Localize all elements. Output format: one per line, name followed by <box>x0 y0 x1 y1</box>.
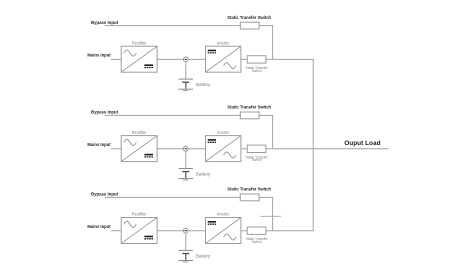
ground symbol line 2 (module 2) <box>183 179 189 181</box>
svg-text:Rectifier: Rectifier <box>132 130 147 135</box>
rectifier REC3 AC sine symbol <box>124 221 136 227</box>
battery B1 short plate <box>182 81 189 83</box>
wire bypass drop (module 1) <box>272 26 274 60</box>
rectifier REC2 DC symbol solid line <box>144 154 153 156</box>
wire S1a output to corner (module 1) <box>259 25 273 27</box>
svg-text:Static Transfer Switch: Static Transfer Switch <box>227 105 271 110</box>
wire battery drop (module 1) <box>185 62 187 79</box>
static transfer switch S2a (bypass path) <box>240 112 259 119</box>
wire battery to ground (module 3) <box>185 254 187 261</box>
static transfer switch S3b (inverter path) <box>247 227 266 234</box>
svg-text:Battery: Battery <box>196 82 211 87</box>
wire mains input (module 1) <box>111 58 121 60</box>
node DC bus junction mark (module 3) <box>185 230 187 232</box>
wire S3b output to bus (module 3) <box>266 230 314 232</box>
inverter INV1 box <box>206 46 241 72</box>
svg-text:Bypass Input: Bypass Input <box>91 192 118 197</box>
wire S2a output to corner (module 2) <box>259 114 273 116</box>
svg-text:Rectifier: Rectifier <box>132 40 147 45</box>
svg-text:Ouput Load: Ouput Load <box>344 140 380 147</box>
rectifier REC2 diagonal <box>122 136 157 161</box>
rectifier REC3 diagonal <box>122 218 157 243</box>
wire battery drop (module 3) <box>185 233 187 250</box>
rectifier REC3 DC symbol dashed line <box>144 238 153 240</box>
wire rectifier to DC node (module 2) <box>157 148 183 150</box>
node DC bus junction mark (module 1) <box>185 58 187 60</box>
rectifier REC1 DC symbol dashed line <box>144 67 153 69</box>
svg-text:Static Transfer Switch: Static Transfer Switch <box>227 187 271 192</box>
svg-text:Bypass Input: Bypass Input <box>91 20 118 25</box>
svg-text:Mains Input: Mains Input <box>87 224 111 229</box>
ground symbol line 2 (module 1) <box>183 90 189 92</box>
ground symbol line 2 (module 3) <box>183 261 189 263</box>
wire bypass drop (module 2) <box>272 115 274 148</box>
node DC bus junction (module 1) <box>183 57 188 62</box>
rectifier REC2 box <box>121 136 157 162</box>
svg-text:Switch: Switch <box>252 157 262 162</box>
ground symbol line 1 (module 3) <box>178 260 193 262</box>
inverter INV1 AC sine symbol <box>224 63 237 69</box>
wire S2b output to bus (module 2) <box>266 148 314 150</box>
inverter INV1 DC symbol solid line <box>208 50 216 52</box>
wire DC node to inverter (module 3) <box>188 230 205 232</box>
inverter INV1 diagonal <box>206 47 241 72</box>
wire DC node to inverter (module 2) <box>188 148 205 150</box>
svg-text:Switch: Switch <box>252 68 262 73</box>
battery B3 long plate <box>179 249 193 251</box>
static transfer switch S1b (inverter path) <box>247 56 266 63</box>
ground symbol line 1 (module 1) <box>178 88 193 90</box>
wire S1b output to bus (module 1) <box>266 58 314 60</box>
wire output load line <box>313 148 388 150</box>
svg-text:Mains Input: Mains Input <box>87 53 111 58</box>
svg-text:Bypass Input: Bypass Input <box>91 110 118 115</box>
wire mains input (module 2) <box>111 148 121 150</box>
wire battery to ground (module 1) <box>185 82 187 89</box>
svg-text:Battery: Battery <box>196 171 211 176</box>
wire battery to ground (module 2) <box>185 172 187 179</box>
inverter INV2 DC symbol solid line <box>208 139 216 141</box>
rectifier REC1 box <box>121 46 157 72</box>
svg-text:Static Transfer Switch: Static Transfer Switch <box>227 15 271 20</box>
rectifier REC1 AC sine symbol <box>124 50 136 56</box>
svg-text:Inverter: Inverter <box>217 40 230 45</box>
wire mains input (module 3) <box>111 230 121 232</box>
wire S3a output to corner (module 3) <box>259 196 273 198</box>
node DC bus junction mark (module 2) <box>185 148 187 150</box>
inverter INV3 diagonal <box>206 218 241 243</box>
static transfer switch S3a (bypass path) <box>240 194 259 201</box>
inverter INV3 DC symbol solid line <box>208 221 216 223</box>
inverter INV3 AC sine symbol <box>224 234 237 240</box>
svg-text:Mains Input: Mains Input <box>87 142 111 147</box>
wire battery drop (module 2) <box>185 151 187 168</box>
wire bypass drop (module 3) <box>272 197 274 230</box>
wire inverter to S1b (module 1) <box>241 58 247 60</box>
rectifier REC1 DC symbol solid line <box>144 64 153 66</box>
wire DC node to inverter (module 1) <box>188 58 205 60</box>
inverter INV3 box <box>206 218 241 244</box>
inverter INV2 AC sine symbol <box>224 152 237 158</box>
svg-text:Battery: Battery <box>196 253 211 258</box>
inverter INV2 box <box>206 136 241 162</box>
rectifier REC2 DC symbol dashed line <box>144 156 153 158</box>
rectifier REC2 AC sine symbol <box>124 139 136 145</box>
inverter INV2 diagonal <box>206 136 241 161</box>
battery B1 long plate <box>179 78 193 80</box>
svg-text:Inverter: Inverter <box>217 130 230 135</box>
rectifier REC3 DC symbol solid line <box>144 236 153 238</box>
ground symbol line 1 (module 2) <box>178 178 193 180</box>
node DC bus junction (module 3) <box>183 228 188 233</box>
wire inverter to S3b (module 3) <box>241 230 247 232</box>
wire module 3 crossing tick <box>261 215 281 217</box>
inverter INV2 DC symbol dashed line <box>208 141 216 143</box>
rectifier REC1 diagonal <box>122 47 157 72</box>
wire bypass input line (module 1) <box>105 25 241 27</box>
static transfer switch S2b (inverter path) <box>247 145 266 152</box>
node DC bus junction (module 2) <box>183 146 188 151</box>
svg-text:Inverter: Inverter <box>217 212 230 217</box>
wire bypass input line (module 3) <box>105 196 241 198</box>
wire rectifier to DC node (module 3) <box>157 230 183 232</box>
svg-text:Switch: Switch <box>252 239 262 244</box>
wire bypass input line (module 2) <box>105 114 241 116</box>
battery B2 short plate <box>182 171 189 173</box>
inverter INV1 DC symbol dashed line <box>208 52 216 54</box>
static transfer switch S1a (bypass path) <box>240 22 259 29</box>
wire main output bus (vertical) <box>312 59 314 230</box>
inverter INV3 DC symbol dashed line <box>208 223 216 225</box>
wire inverter to S2b (module 2) <box>241 148 247 150</box>
wire rectifier to DC node (module 1) <box>157 58 183 60</box>
battery B2 long plate <box>179 168 193 170</box>
rectifier REC3 box <box>121 218 157 244</box>
svg-text:Rectifier: Rectifier <box>132 212 147 217</box>
battery B3 short plate <box>182 253 189 255</box>
